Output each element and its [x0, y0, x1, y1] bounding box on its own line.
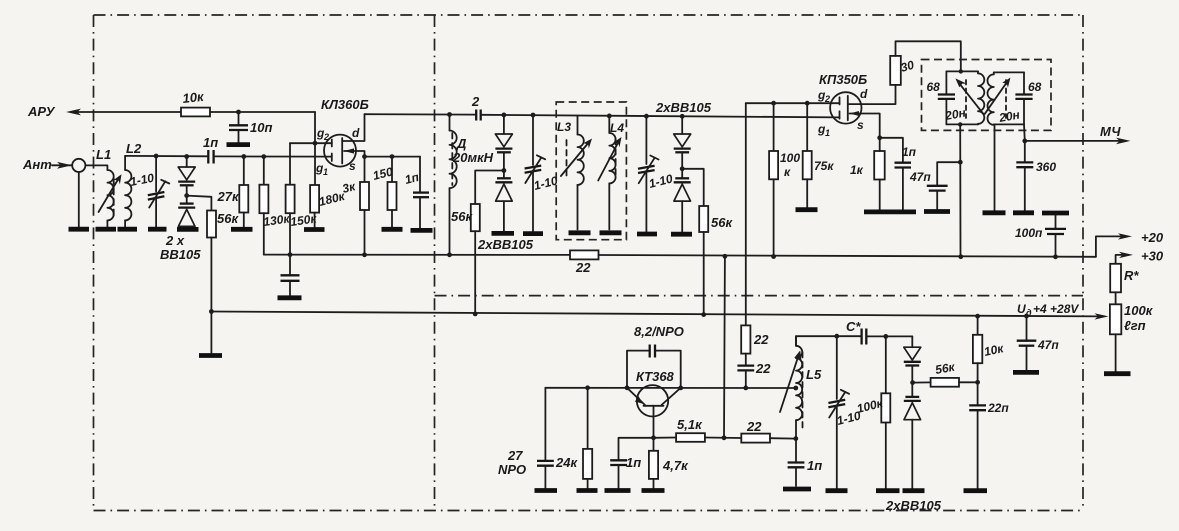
ground 1п oscillator — [605, 488, 631, 493]
ground 47п — [924, 209, 950, 214]
svg-text:2: 2 — [323, 132, 329, 142]
wire antenna to L1 — [85, 165, 107, 170]
svg-text:100к: 100к — [1124, 303, 1154, 318]
transistor КП350Б dual-gate MOSFET VT2 — [817, 72, 896, 138]
varicap pair 2хВВ105 mixer gate — [655, 100, 712, 232]
wire base node to 5,1к — [654, 437, 677, 439]
tuning arrow secondary — [985, 82, 1008, 114]
ground L4 — [600, 230, 622, 235]
capacitor 1п L5 — [788, 439, 823, 486]
svg-text:10п: 10п — [250, 120, 272, 135]
base lead down — [653, 406, 655, 438]
+20 output arrow — [1096, 236, 1128, 256]
inductor Д 20мкН choke — [450, 115, 494, 255]
wire varicap mid to 56к — [187, 196, 212, 211]
svg-text:2: 2 — [471, 94, 480, 109]
ground trimmer antenna — [148, 227, 167, 232]
svg-text:22: 22 — [575, 260, 591, 275]
wire antenna circle to ground — [78, 172, 80, 227]
node main tuned line from L2 — [125, 155, 207, 157]
wire junction to lower ground — [210, 312, 212, 354]
oscillator collector-emitter rail — [545, 387, 795, 389]
svg-text:1п: 1п — [203, 135, 218, 150]
+30 output arrow — [1116, 255, 1129, 264]
svg-text:30: 30 — [899, 58, 916, 75]
svg-text:АРУ: АРУ — [27, 104, 56, 119]
resistor 24к — [555, 388, 592, 488]
resistor 56к varicap bias RF — [207, 211, 239, 238]
svg-text:+20: +20 — [1141, 230, 1164, 245]
svg-text:8,2/NPO: 8,2/NPO — [634, 324, 684, 339]
ground trimmer oscillator — [826, 488, 848, 493]
svg-text:10к: 10к — [182, 89, 206, 106]
svg-text:d: d — [860, 87, 868, 101]
svg-text:1п: 1п — [403, 170, 421, 187]
svg-text:s: s — [857, 118, 864, 132]
inductor L5 with tap — [780, 336, 822, 441]
svg-text:100: 100 — [780, 151, 800, 165]
ground 1к and 1п — [864, 209, 916, 214]
wire g2 rail corner down to 22 chain — [745, 103, 747, 325]
inductor L4 — [607, 114, 624, 230]
svg-text:22: 22 — [753, 332, 769, 347]
emitter diagonal with arrow — [627, 388, 645, 405]
svg-text:U: U — [1017, 302, 1026, 316]
svg-text:20н: 20н — [943, 105, 967, 123]
ground 24к — [577, 488, 598, 493]
svg-text:1п: 1п — [807, 458, 822, 473]
Ант arrowhead pointing right — [57, 162, 72, 169]
svg-text:2: 2 — [824, 94, 830, 104]
capacitor 360 — [1016, 141, 1056, 210]
svg-text:ℓгп: ℓгп — [1124, 318, 1146, 333]
svg-text:КТ368: КТ368 — [636, 369, 675, 384]
node 130к top — [261, 154, 266, 159]
svg-text:L1: L1 — [96, 147, 111, 162]
svg-text:24к: 24к — [555, 455, 578, 470]
IF transformer primary tank — [927, 69, 985, 124]
inductor L2 — [125, 141, 142, 227]
inductor L1 — [96, 147, 114, 227]
IF transformer secondary tank — [985, 72, 1042, 125]
wire 22 to L5 bottom — [770, 437, 796, 439]
resistor 56к mixer gate bias — [699, 206, 733, 232]
varicap pair 2хВВ105 oscillator — [885, 336, 942, 513]
svg-text:МЧ: МЧ — [1100, 124, 1121, 139]
tuning arrow L4 — [598, 141, 619, 181]
ground trimmer second — [637, 232, 657, 237]
svg-text:Д: Д — [456, 136, 467, 151]
resistor 30 drain load — [890, 56, 916, 85]
wire g1 line of VT1 — [215, 155, 332, 157]
resistor 100к g2 divider — [769, 103, 800, 256]
tuning arrow L3 — [561, 142, 590, 177]
svg-text:R*: R* — [1124, 268, 1139, 283]
ground 22п — [964, 488, 988, 493]
svg-text:27: 27 — [507, 448, 523, 463]
transistor КЛ360Б dual-gate MOSFET VT1 — [315, 97, 369, 177]
capacitor 22 injection — [737, 354, 771, 388]
ground 1п L5 — [783, 487, 811, 492]
svg-text:1-10: 1-10 — [129, 171, 156, 189]
svg-text:2 х: 2 х — [165, 233, 185, 248]
capacitor 47п Uд filter — [1017, 314, 1060, 370]
capacitor 1п source bypass — [403, 157, 429, 228]
svg-text:68: 68 — [927, 80, 941, 94]
trimmer capacitor 1-10 mixer input — [525, 113, 560, 232]
svg-text:Ант: Ант — [22, 157, 52, 172]
wire 56к down to Uд rail junction — [210, 238, 212, 312]
wire g2 lead of VT1 — [290, 142, 332, 144]
svg-text:1-10: 1-10 — [532, 173, 559, 192]
wire R* to potentiometer — [1115, 292, 1117, 304]
svg-text:360: 360 — [1036, 160, 1056, 174]
wire 30 to IF transformer primary — [896, 41, 961, 71]
svg-text:1п: 1п — [902, 145, 917, 159]
trimmer capacitor 1-10 second — [638, 114, 674, 232]
trimmer capacitor 1-10 antenna circuit — [129, 154, 169, 227]
oscillator section top dashed border — [435, 295, 1084, 297]
resistor 10к from Uд rail — [973, 314, 1006, 382]
ground for 10п — [227, 142, 251, 147]
node Д choke top — [447, 112, 452, 117]
drain rail VT1 to mixer — [365, 113, 476, 115]
capacitor 1п source bypass VT2 — [880, 138, 917, 210]
collector diagonal — [662, 388, 681, 405]
svg-text:20мкН: 20мкН — [452, 150, 494, 165]
svg-text:1: 1 — [323, 167, 328, 177]
wire bus to oscillator injection — [723, 256, 726, 438]
ferrite core dashes between L1 L2 — [113, 178, 115, 216]
svg-text:1к: 1к — [850, 163, 864, 177]
resistor R* — [1110, 264, 1139, 293]
wire 10к to АРУ drop — [210, 111, 315, 113]
wire L5 top to C* line — [796, 336, 861, 346]
wire 22 chain vertical into oscillator — [745, 324, 747, 326]
wire varicap mid to 56к gate — [682, 169, 704, 206]
svg-text:к: к — [784, 165, 791, 179]
ground trimmer mixer — [523, 231, 543, 236]
svg-text:4,7к: 4,7к — [662, 458, 689, 473]
svg-text:L3: L3 — [557, 120, 571, 134]
outer dashed enclosure bottom border — [94, 510, 1084, 512]
wire secondary cold end to ground — [994, 124, 996, 210]
resistor 10к (AGC) — [181, 108, 210, 117]
ground potentiometer — [1104, 371, 1131, 376]
section divider dash-dot vertical — [434, 15, 436, 511]
ground varicap mixer — [492, 231, 515, 236]
decoupling capacitor below bus — [281, 255, 300, 296]
svg-text:56к: 56к — [217, 211, 239, 226]
svg-text:+30: +30 — [1141, 249, 1164, 264]
ground decoupling cap — [278, 295, 302, 300]
dashed box IF transformer — [922, 60, 1052, 131]
ground varicap mixer gate — [671, 232, 692, 237]
ground secondary — [983, 210, 1006, 215]
svg-text:d: d — [352, 126, 360, 140]
node 27к top — [241, 154, 246, 159]
wire tuned line to mixer g1 — [482, 115, 840, 118]
node junction on AGC line — [236, 110, 241, 115]
wire secondary hot to МЧ node — [1023, 124, 1026, 140]
svg-text:20н: 20н — [997, 107, 1021, 125]
resistor 22 injection — [741, 325, 769, 353]
svg-text:3к: 3к — [341, 179, 358, 196]
drain lead — [848, 85, 896, 104]
supply bus stage1 — [264, 254, 570, 256]
svg-text:150: 150 — [371, 164, 394, 183]
ground antenna — [69, 227, 90, 232]
ground 75к — [796, 207, 818, 212]
capacitor 100п to +20 rail — [1015, 213, 1069, 257]
svg-text:s: s — [349, 159, 356, 173]
ground 100к oscillator — [876, 488, 900, 493]
resistor 56к oscillator bias — [931, 360, 959, 387]
ground 4,7к — [642, 488, 665, 493]
capacitor 1п oscillator — [610, 438, 653, 488]
wire 56к mixer to Uд rail — [474, 231, 476, 314]
АРУ arrowhead pointing left — [66, 109, 81, 116]
resistor 56к mixer bias — [451, 204, 480, 231]
capacitor 47п drain decoupling — [909, 162, 960, 209]
ground lower left — [199, 353, 222, 358]
svg-text:L2: L2 — [126, 141, 142, 156]
source lead with arrow — [850, 114, 880, 138]
wire source node — [365, 156, 421, 158]
outer dashed enclosure left border — [93, 15, 95, 511]
wire 56к to 10к node — [959, 381, 978, 383]
inductor L3 — [557, 116, 584, 230]
ground 180к — [304, 227, 325, 232]
resistor 27к — [217, 157, 249, 228]
svg-text:2хВВ105: 2хВВ105 — [885, 498, 942, 513]
feedback capacitor 8,2/NPO loop — [627, 324, 684, 388]
resistor 5,1к — [676, 417, 705, 442]
outer dashed enclosure top border — [94, 14, 1084, 16]
ground 47п Uд — [1013, 370, 1039, 375]
Uд tuning voltage rail with wiper arrow — [211, 312, 1102, 317]
wire primary bottom tap down — [958, 122, 962, 126]
svg-text:27к: 27к — [217, 189, 240, 204]
svg-text:1п: 1п — [626, 455, 641, 470]
ground L2 — [118, 227, 138, 232]
resistor 130к — [259, 157, 291, 255]
svg-text:+4 +28V: +4 +28V — [1033, 302, 1079, 316]
tuning arrow primary — [959, 82, 984, 113]
varicap pair 2хВВ105 mixer input — [477, 113, 534, 253]
resistor 75к g2 divider — [803, 103, 835, 207]
ground L3 — [569, 230, 591, 235]
wire 56к gate to Uд rail — [703, 232, 705, 315]
svg-text:100п: 100п — [1015, 226, 1043, 240]
svg-text:22: 22 — [755, 361, 771, 376]
svg-text:2хВВ105: 2хВВ105 — [477, 237, 534, 252]
capacitor 27 NPO emitter — [498, 388, 554, 488]
supply bus stage2 — [599, 255, 1096, 257]
resistor 180к AGC bias — [310, 185, 347, 227]
svg-text:10к: 10к — [983, 341, 1006, 359]
source lead with arrow — [344, 151, 365, 157]
ground varicap antenna — [177, 227, 199, 232]
resistor 22 to L5 — [741, 419, 770, 443]
resistor 1к source VT2 — [850, 138, 885, 210]
svg-text:КЛ360Б: КЛ360Б — [321, 97, 369, 112]
svg-text:22: 22 — [746, 419, 762, 434]
svg-text:КП350Б: КП350Б — [819, 72, 867, 87]
svg-text:5,1к: 5,1к — [677, 417, 703, 432]
ground 360 — [1013, 210, 1034, 215]
node g2 bias junction — [313, 141, 318, 146]
ground 27к — [231, 227, 253, 232]
wire 5,1к to 22 — [705, 437, 741, 440]
svg-text:1-10: 1-10 — [647, 171, 674, 190]
node 150 top — [390, 154, 395, 159]
resistor 100к oscillator — [855, 336, 890, 488]
svg-text:75к: 75к — [814, 159, 834, 173]
svg-text:56к: 56к — [711, 215, 733, 230]
resistor 3к source — [341, 157, 369, 255]
ground 27 NPO — [535, 488, 558, 493]
svg-text:2хВВ105: 2хВВ105 — [655, 100, 712, 115]
АРУ vertical drop to 180к — [314, 112, 316, 185]
potentiometer 100к tuning voltage — [1110, 303, 1154, 371]
svg-text:68: 68 — [1028, 80, 1042, 94]
trimmer capacitor 1-10 oscillator — [828, 336, 862, 488]
wire varicap mid to 56к mixer — [475, 171, 504, 205]
ground varicap oscillator — [903, 488, 925, 493]
series capacitor 2 — [471, 94, 481, 121]
svg-text:L5: L5 — [806, 367, 822, 382]
series capacitor 1п input — [203, 135, 218, 164]
outer dashed enclosure right border — [1082, 15, 1084, 511]
capacitor C* — [846, 319, 912, 345]
МЧ output arrow — [1025, 140, 1126, 142]
svg-text:47п: 47п — [1037, 338, 1059, 352]
svg-text:1: 1 — [825, 128, 830, 138]
g2 feed rail VT2 — [746, 102, 840, 104]
resistor 150 — [371, 157, 396, 227]
tuning arrow through L1 — [99, 177, 120, 212]
svg-text:47п: 47п — [909, 170, 931, 184]
antenna connector circle — [72, 159, 85, 172]
varicap pair 2xВВ105 antenna — [160, 154, 201, 262]
capacitor 22п — [969, 382, 1009, 488]
dashed box L3 L4 bandfilter — [556, 102, 626, 240]
ground L1 — [96, 227, 117, 232]
ground 150 — [382, 227, 403, 232]
wire varicap mid to 56к — [913, 381, 931, 383]
resistor 22 in bus — [570, 250, 599, 275]
tuning arrow L5 — [780, 355, 799, 412]
svg-text:ВВ105: ВВ105 — [160, 247, 201, 262]
svg-text:56к: 56к — [934, 360, 956, 377]
svg-text:NPO: NPO — [498, 462, 526, 477]
drain lead — [342, 114, 364, 141]
capacitor 10п — [229, 112, 272, 142]
resistor 150к g2 bias — [286, 143, 319, 255]
transistor КТ368 oscillator — [627, 369, 681, 438]
svg-text:56к: 56к — [451, 209, 473, 224]
ground 1п — [411, 228, 433, 233]
svg-text:22п: 22п — [987, 401, 1009, 415]
resistor 4,7к base — [649, 435, 689, 488]
svg-text:C*: C* — [846, 319, 861, 334]
АРУ wire to 10к — [78, 111, 181, 113]
